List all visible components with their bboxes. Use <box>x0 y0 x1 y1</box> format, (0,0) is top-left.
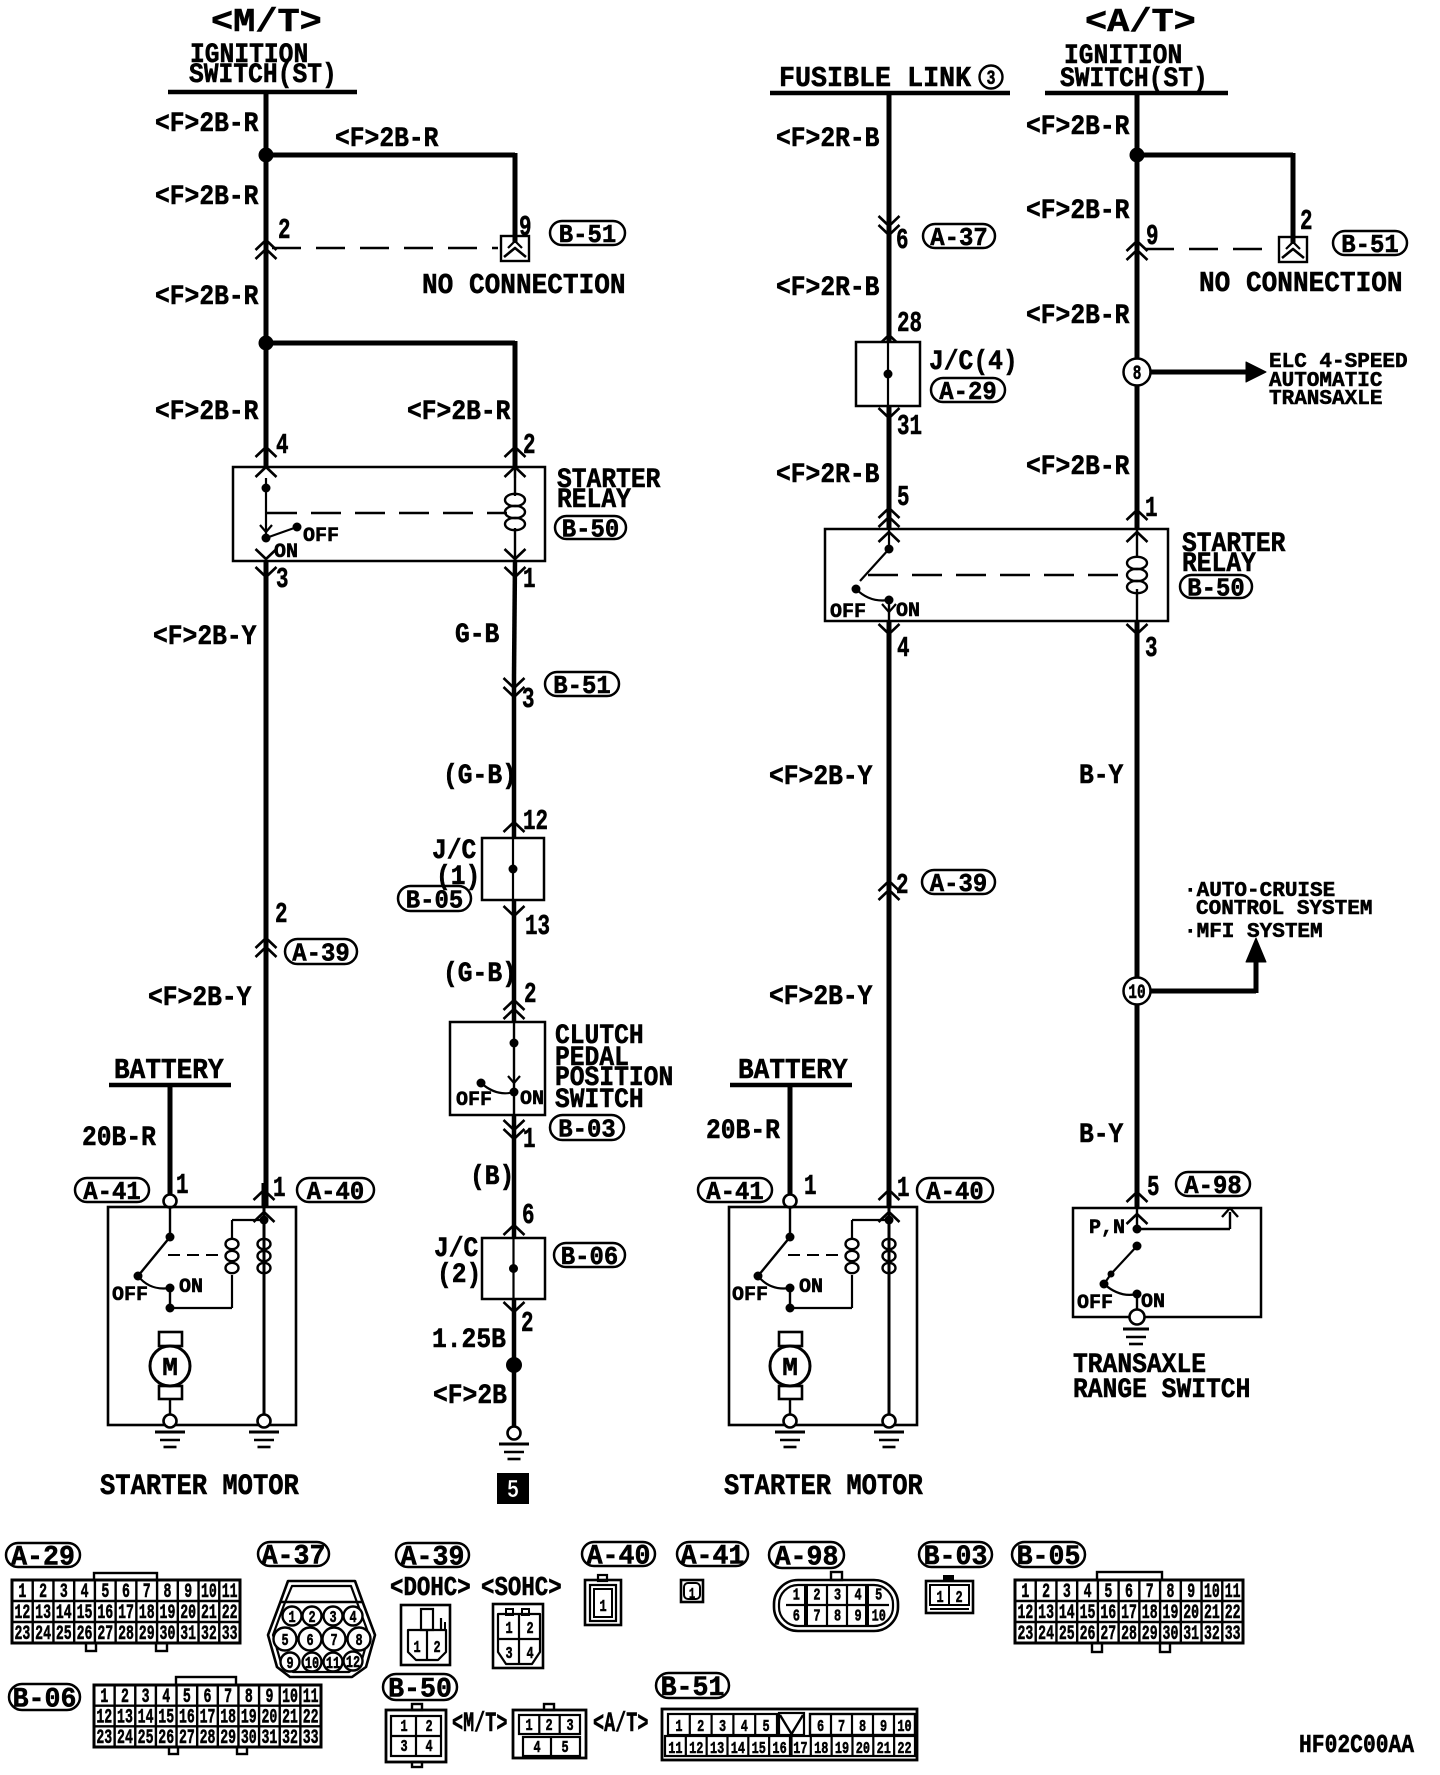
svg-text:20: 20 <box>180 1603 196 1625</box>
svg-text:2: 2 <box>523 429 536 462</box>
svg-text:29: 29 <box>139 1624 155 1646</box>
svg-text:A-40: A-40 <box>926 1177 983 1207</box>
svg-text:2: 2 <box>955 1589 962 1608</box>
svg-text:6: 6 <box>522 1199 535 1232</box>
svg-text:9: 9 <box>286 1655 293 1674</box>
svg-text:4: 4 <box>162 1686 170 1708</box>
svg-text:3: 3 <box>986 68 995 91</box>
svg-text:3: 3 <box>522 683 535 716</box>
svg-text:6: 6 <box>793 1608 800 1627</box>
svg-text:10: 10 <box>282 1686 298 1708</box>
svg-text:2: 2 <box>433 1639 440 1658</box>
svg-text:A-39: A-39 <box>930 869 987 899</box>
svg-text:OFF: OFF <box>830 601 866 624</box>
svg-text:21: 21 <box>282 1707 298 1729</box>
svg-text:3: 3 <box>329 1609 336 1628</box>
svg-text:A-39: A-39 <box>401 1542 465 1574</box>
svg-text:<F>2B-Y: <F>2B-Y <box>153 621 257 653</box>
svg-text:10: 10 <box>305 1655 319 1674</box>
svg-text:5: 5 <box>875 1587 882 1606</box>
svg-text:<M/T>: <M/T> <box>452 1709 507 1741</box>
svg-text:B-51: B-51 <box>661 1673 725 1705</box>
svg-text:1: 1 <box>675 1718 682 1737</box>
svg-text:33: 33 <box>222 1624 238 1646</box>
svg-text:BATTERY: BATTERY <box>738 1055 848 1088</box>
svg-text:3: 3 <box>719 1718 726 1737</box>
svg-text:ON: ON <box>799 1276 823 1299</box>
svg-text:21: 21 <box>877 1740 891 1759</box>
svg-text:5: 5 <box>763 1718 770 1737</box>
svg-text:19: 19 <box>835 1740 849 1759</box>
svg-text:<F>2R-B: <F>2R-B <box>776 272 880 304</box>
svg-text:<F>2B-R: <F>2B-R <box>407 396 511 428</box>
svg-text:1: 1 <box>936 1589 943 1608</box>
svg-text:RANGE SWITCH: RANGE SWITCH <box>1073 1374 1250 1406</box>
svg-text:<A/T>: <A/T> <box>1085 4 1196 42</box>
svg-text:A-41: A-41 <box>706 1177 763 1207</box>
svg-text:11: 11 <box>1225 1582 1241 1604</box>
svg-text:2: 2 <box>813 1587 820 1606</box>
svg-text:16: 16 <box>772 1740 786 1759</box>
svg-text:8: 8 <box>859 1718 866 1737</box>
svg-text:OFF: OFF <box>456 1089 492 1112</box>
svg-text:4: 4 <box>526 1645 533 1664</box>
svg-text:17: 17 <box>200 1707 216 1729</box>
svg-text:1: 1 <box>1021 1582 1029 1604</box>
svg-text:15: 15 <box>752 1740 766 1759</box>
svg-text:5: 5 <box>1147 1171 1160 1204</box>
svg-text:18: 18 <box>220 1707 236 1729</box>
svg-text:12: 12 <box>14 1603 30 1625</box>
svg-text:A-98: A-98 <box>1184 1171 1241 1201</box>
svg-text:12: 12 <box>346 1654 360 1673</box>
svg-text:23: 23 <box>96 1728 112 1750</box>
svg-text:29: 29 <box>220 1728 236 1750</box>
svg-text:10: 10 <box>897 1718 911 1737</box>
svg-text:23: 23 <box>14 1624 30 1646</box>
svg-text:CONTROL SYSTEM: CONTROL SYSTEM <box>1196 898 1372 921</box>
svg-text:31: 31 <box>261 1728 277 1750</box>
svg-text:<A/T>: <A/T> <box>593 1709 648 1741</box>
svg-text:13: 13 <box>710 1740 724 1759</box>
svg-text:(G-B): (G-B) <box>443 760 517 792</box>
svg-text:<DOHC>: <DOHC> <box>390 1573 471 1603</box>
svg-text:27: 27 <box>97 1624 113 1646</box>
svg-text:<F>2B-Y: <F>2B-Y <box>148 982 252 1014</box>
svg-text:<F>2B-Y: <F>2B-Y <box>769 981 873 1013</box>
svg-text:20B-R: 20B-R <box>82 1122 156 1154</box>
svg-text:5: 5 <box>561 1739 568 1758</box>
svg-text:B-06: B-06 <box>13 1684 77 1716</box>
svg-text:19: 19 <box>1163 1603 1179 1625</box>
svg-text:22: 22 <box>222 1603 238 1625</box>
svg-text:14: 14 <box>731 1740 745 1759</box>
svg-text:5: 5 <box>183 1686 191 1708</box>
svg-text:1: 1 <box>793 1587 800 1606</box>
svg-text:<F>2B-R: <F>2B-R <box>1026 111 1130 143</box>
svg-text:J/C(4): J/C(4) <box>929 346 1018 378</box>
svg-text:5: 5 <box>507 1476 519 1506</box>
svg-text:SWITCH(ST): SWITCH(ST) <box>189 59 337 91</box>
svg-text:5: 5 <box>1104 1582 1112 1604</box>
svg-text:2: 2 <box>526 1620 533 1639</box>
svg-text:7: 7 <box>1146 1582 1154 1604</box>
svg-text:8: 8 <box>1133 363 1142 386</box>
svg-text:2: 2 <box>524 978 537 1011</box>
svg-text:29: 29 <box>1142 1624 1158 1646</box>
svg-text:A-98: A-98 <box>775 1542 839 1574</box>
svg-text:1: 1 <box>804 1170 817 1203</box>
svg-text:<F>2B: <F>2B <box>433 1380 507 1412</box>
svg-text:<F>2B-R: <F>2B-R <box>155 281 259 313</box>
svg-text:4: 4 <box>855 1587 862 1606</box>
svg-text:3: 3 <box>142 1686 150 1708</box>
svg-text:B-Y: B-Y <box>1079 1119 1124 1151</box>
svg-text:1: 1 <box>599 1598 606 1617</box>
svg-text:<M/T>: <M/T> <box>211 4 322 42</box>
svg-text:<F>2B-R: <F>2B-R <box>1026 195 1130 227</box>
svg-text:9: 9 <box>1187 1582 1195 1604</box>
svg-text:(2): (2) <box>437 1259 481 1291</box>
svg-text:·MFI SYSTEM: ·MFI SYSTEM <box>1184 921 1323 944</box>
svg-text:5: 5 <box>101 1582 109 1604</box>
svg-text:A-37: A-37 <box>262 1541 326 1573</box>
svg-text:A-39: A-39 <box>292 939 349 969</box>
svg-text:16: 16 <box>97 1603 113 1625</box>
svg-text:13: 13 <box>1038 1603 1054 1625</box>
svg-text:ON: ON <box>1141 1291 1165 1314</box>
svg-text:1: 1 <box>400 1718 407 1737</box>
svg-text:9: 9 <box>880 1718 887 1737</box>
svg-text:6: 6 <box>204 1686 212 1708</box>
svg-text:A-37: A-37 <box>930 223 987 253</box>
svg-text:1: 1 <box>1145 492 1158 525</box>
svg-text:4: 4 <box>897 632 910 665</box>
svg-text:BATTERY: BATTERY <box>114 1055 224 1088</box>
svg-text:2: 2 <box>278 214 291 247</box>
svg-text:28: 28 <box>200 1728 216 1750</box>
svg-text:3: 3 <box>276 563 289 596</box>
svg-text:1: 1 <box>523 563 536 596</box>
svg-text:2: 2 <box>308 1609 315 1628</box>
svg-text:NO CONNECTION: NO CONNECTION <box>1199 268 1403 301</box>
svg-text:1: 1 <box>523 1123 536 1156</box>
svg-text:2: 2 <box>545 1717 552 1736</box>
svg-text:32: 32 <box>1204 1624 1220 1646</box>
svg-text:11: 11 <box>668 1740 682 1759</box>
svg-text:8: 8 <box>355 1632 362 1651</box>
svg-text:A-29: A-29 <box>939 377 996 407</box>
svg-text:16: 16 <box>179 1707 195 1729</box>
svg-text:32: 32 <box>282 1728 298 1750</box>
svg-text:3: 3 <box>60 1582 68 1604</box>
svg-text:3: 3 <box>566 1717 573 1736</box>
svg-text:<F>2B-R: <F>2B-R <box>155 396 259 428</box>
svg-text:7: 7 <box>143 1582 151 1604</box>
svg-text:7: 7 <box>330 1632 337 1651</box>
svg-text:12: 12 <box>1017 1603 1033 1625</box>
svg-text:4: 4 <box>349 1609 356 1628</box>
svg-text:B-51: B-51 <box>559 220 616 250</box>
svg-text:B-05: B-05 <box>1017 1542 1081 1574</box>
svg-text:2: 2 <box>521 1307 534 1340</box>
svg-text:<F>2B-R: <F>2B-R <box>155 108 259 140</box>
svg-text:8: 8 <box>163 1582 171 1604</box>
svg-text:2: 2 <box>697 1718 704 1737</box>
svg-text:4: 4 <box>533 1739 540 1758</box>
svg-text:ON: ON <box>179 1276 203 1299</box>
svg-text:5: 5 <box>281 1632 288 1651</box>
svg-text:M: M <box>782 1353 798 1383</box>
svg-text:OFF: OFF <box>112 1284 148 1307</box>
svg-text:33: 33 <box>1225 1624 1241 1646</box>
svg-text:17: 17 <box>118 1603 134 1625</box>
svg-text:B-50: B-50 <box>1187 574 1244 604</box>
svg-text:18: 18 <box>139 1603 155 1625</box>
svg-text:16: 16 <box>1100 1603 1116 1625</box>
svg-text:10: 10 <box>201 1582 217 1604</box>
svg-text:9: 9 <box>184 1582 192 1604</box>
svg-text:A-41: A-41 <box>681 1541 745 1573</box>
svg-text:31: 31 <box>897 410 922 443</box>
svg-text:G-B: G-B <box>455 619 500 651</box>
svg-text:18: 18 <box>1142 1603 1158 1625</box>
svg-text:2: 2 <box>1300 205 1313 238</box>
svg-text:8: 8 <box>834 1608 841 1627</box>
svg-text:FUSIBLE LINK: FUSIBLE LINK <box>779 63 971 95</box>
svg-text:1: 1 <box>100 1686 108 1708</box>
svg-text:1: 1 <box>273 1172 286 1205</box>
svg-text:19: 19 <box>241 1707 257 1729</box>
svg-text:33: 33 <box>303 1728 319 1750</box>
svg-text:6: 6 <box>1125 1582 1133 1604</box>
svg-text:ON: ON <box>274 541 298 564</box>
svg-text:<F>2B-R: <F>2B-R <box>335 123 439 155</box>
svg-text:22: 22 <box>1225 1603 1241 1625</box>
svg-text:B-50: B-50 <box>562 515 619 545</box>
svg-text:RELAY: RELAY <box>557 484 631 516</box>
svg-text:1: 1 <box>505 1620 512 1639</box>
svg-text:14: 14 <box>56 1603 72 1625</box>
svg-text:9: 9 <box>1146 220 1159 253</box>
svg-text:28: 28 <box>118 1624 134 1646</box>
svg-text:21: 21 <box>201 1603 217 1625</box>
svg-text:13: 13 <box>525 910 550 943</box>
svg-text:(G-B): (G-B) <box>443 958 517 990</box>
svg-text:13: 13 <box>35 1603 51 1625</box>
svg-text:18: 18 <box>814 1740 828 1759</box>
svg-text:28: 28 <box>897 307 922 340</box>
svg-text:6: 6 <box>306 1632 313 1651</box>
svg-text:B-05: B-05 <box>406 886 463 916</box>
svg-text:B-06: B-06 <box>561 1242 618 1272</box>
svg-text:20: 20 <box>261 1707 277 1729</box>
svg-text:3: 3 <box>834 1587 841 1606</box>
svg-text:14: 14 <box>138 1707 154 1729</box>
svg-text:22: 22 <box>303 1707 319 1729</box>
svg-text:B-03: B-03 <box>558 1115 615 1145</box>
svg-text:4: 4 <box>425 1738 432 1757</box>
svg-text:12: 12 <box>689 1740 703 1759</box>
svg-text:20B-R: 20B-R <box>706 1115 780 1147</box>
svg-text:31: 31 <box>180 1624 196 1646</box>
svg-text:25: 25 <box>1059 1624 1075 1646</box>
svg-text:(B): (B) <box>470 1161 514 1193</box>
svg-text:STARTER MOTOR: STARTER MOTOR <box>724 1470 923 1503</box>
svg-text:24: 24 <box>117 1728 133 1750</box>
svg-text:OFF: OFF <box>303 525 339 548</box>
svg-text:17: 17 <box>1121 1603 1137 1625</box>
svg-text:8: 8 <box>245 1686 253 1708</box>
svg-text:28: 28 <box>1121 1624 1137 1646</box>
svg-text:11: 11 <box>303 1686 319 1708</box>
svg-text:20: 20 <box>856 1740 870 1759</box>
svg-text:23: 23 <box>1017 1624 1033 1646</box>
svg-text:2: 2 <box>121 1686 129 1708</box>
svg-text:1: 1 <box>288 1609 295 1628</box>
svg-text:9: 9 <box>519 211 532 244</box>
svg-text:6: 6 <box>122 1582 130 1604</box>
svg-text:ON: ON <box>896 600 920 623</box>
svg-text:1: 1 <box>897 1172 910 1205</box>
svg-text:12: 12 <box>523 805 548 838</box>
svg-text:25: 25 <box>138 1728 154 1750</box>
svg-text:3: 3 <box>505 1645 512 1664</box>
svg-text:3: 3 <box>1145 632 1158 665</box>
svg-text:15: 15 <box>1080 1603 1096 1625</box>
svg-text:2: 2 <box>275 898 288 931</box>
svg-text:25: 25 <box>56 1624 72 1646</box>
svg-text:<F>2B-R: <F>2B-R <box>1026 300 1130 332</box>
svg-text:B-03: B-03 <box>924 1542 988 1574</box>
svg-text:1: 1 <box>413 1639 420 1658</box>
svg-text:A-40: A-40 <box>307 1177 364 1207</box>
svg-text:7: 7 <box>813 1608 820 1627</box>
svg-text:A-40: A-40 <box>587 1541 651 1573</box>
svg-text:11: 11 <box>222 1582 238 1604</box>
svg-text:4: 4 <box>276 429 289 462</box>
svg-text:10: 10 <box>1204 1582 1220 1604</box>
svg-text:24: 24 <box>35 1624 51 1646</box>
svg-text:B-51: B-51 <box>1341 230 1398 260</box>
svg-text:21: 21 <box>1204 1603 1220 1625</box>
svg-text:22: 22 <box>897 1740 911 1759</box>
svg-text:2: 2 <box>896 869 909 902</box>
svg-text:2: 2 <box>39 1582 47 1604</box>
svg-text:M: M <box>162 1353 178 1383</box>
svg-text:6: 6 <box>896 224 909 257</box>
svg-text:<SOHC>: <SOHC> <box>481 1573 562 1603</box>
svg-text:<F>2R-B: <F>2R-B <box>776 459 880 491</box>
svg-text:17: 17 <box>793 1740 807 1759</box>
svg-text:15: 15 <box>77 1603 93 1625</box>
svg-text:2: 2 <box>1042 1582 1050 1604</box>
svg-text:32: 32 <box>201 1624 217 1646</box>
svg-text:5: 5 <box>897 481 910 514</box>
svg-text:<F>2B-Y: <F>2B-Y <box>769 761 873 793</box>
svg-text:SWITCH: SWITCH <box>555 1084 644 1116</box>
svg-text:9: 9 <box>265 1686 273 1708</box>
svg-text:7: 7 <box>224 1686 232 1708</box>
svg-text:OFF: OFF <box>1077 1292 1113 1315</box>
svg-text:1.25B: 1.25B <box>432 1324 506 1356</box>
svg-text:1: 1 <box>689 1585 695 1602</box>
svg-text:NO CONNECTION: NO CONNECTION <box>422 270 626 303</box>
svg-text:A-29: A-29 <box>11 1542 75 1574</box>
svg-text:TRANSAXLE: TRANSAXLE <box>1269 388 1382 411</box>
svg-text:9: 9 <box>855 1608 862 1627</box>
svg-text:4: 4 <box>1084 1582 1092 1604</box>
svg-text:1: 1 <box>176 1169 189 1202</box>
svg-text:B-50: B-50 <box>388 1674 452 1706</box>
svg-text:3: 3 <box>1063 1582 1071 1604</box>
svg-text:STARTER MOTOR: STARTER MOTOR <box>100 1470 299 1503</box>
svg-text:1: 1 <box>525 1717 532 1736</box>
svg-text:ON: ON <box>520 1088 544 1111</box>
svg-text:11: 11 <box>326 1655 340 1674</box>
svg-text:HF02C00AA: HF02C00AA <box>1299 1731 1415 1761</box>
svg-text:10: 10 <box>1128 982 1145 1005</box>
svg-text:3: 3 <box>400 1738 407 1757</box>
svg-text:<F>2B-R: <F>2B-R <box>1026 451 1130 483</box>
svg-text:27: 27 <box>179 1728 195 1750</box>
svg-text:24: 24 <box>1038 1624 1054 1646</box>
svg-text:31: 31 <box>1183 1624 1199 1646</box>
svg-text:SWITCH(ST): SWITCH(ST) <box>1060 63 1208 95</box>
svg-text:OFF: OFF <box>732 1284 768 1307</box>
svg-text:14: 14 <box>1059 1603 1075 1625</box>
svg-text:12: 12 <box>96 1707 112 1729</box>
svg-text:15: 15 <box>158 1707 174 1729</box>
svg-text:2: 2 <box>425 1718 432 1737</box>
svg-text:P,N: P,N <box>1089 1217 1125 1240</box>
svg-text:6: 6 <box>817 1718 824 1737</box>
svg-text:4: 4 <box>741 1718 748 1737</box>
svg-text:20: 20 <box>1183 1603 1199 1625</box>
svg-text:A-41: A-41 <box>83 1177 140 1207</box>
svg-text:B-51: B-51 <box>553 671 610 701</box>
svg-text:1: 1 <box>18 1582 26 1604</box>
svg-text:<F>2B-R: <F>2B-R <box>155 181 259 213</box>
svg-text:4: 4 <box>81 1582 89 1604</box>
svg-text:19: 19 <box>160 1603 176 1625</box>
svg-text:<F>2R-B: <F>2R-B <box>776 123 880 155</box>
svg-text:13: 13 <box>117 1707 133 1729</box>
svg-text:8: 8 <box>1166 1582 1174 1604</box>
svg-text:B-Y: B-Y <box>1079 760 1124 792</box>
svg-text:10: 10 <box>872 1608 886 1627</box>
svg-text:7: 7 <box>838 1718 845 1737</box>
